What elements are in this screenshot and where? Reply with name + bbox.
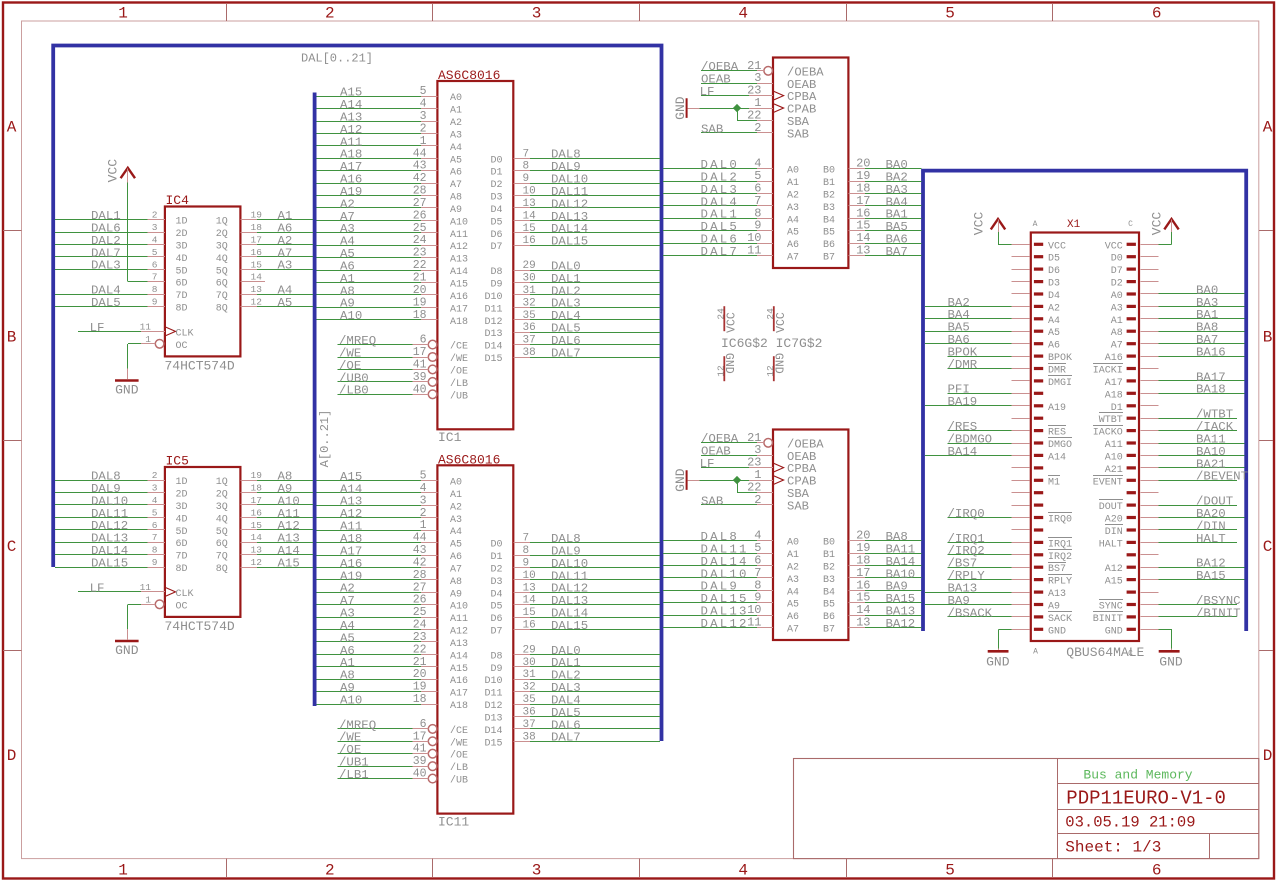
svg-text:B2: B2 (823, 190, 835, 201)
svg-text:VCC: VCC (105, 159, 120, 183)
svg-text:1: 1 (145, 594, 151, 605)
svg-text:DIN: DIN (1105, 527, 1123, 538)
svg-text:DMGO: DMGO (1048, 440, 1072, 451)
svg-text:5D: 5D (176, 266, 188, 277)
svg-text:4: 4 (152, 234, 158, 245)
svg-text:18: 18 (413, 309, 427, 322)
svg-text:D5: D5 (490, 217, 502, 228)
svg-text:5: 5 (420, 470, 427, 483)
svg-text:D6: D6 (490, 230, 502, 241)
svg-text:IC5: IC5 (166, 454, 189, 469)
svg-text:A2: A2 (450, 118, 462, 129)
svg-text:A17: A17 (1105, 378, 1123, 389)
svg-text:D0: D0 (490, 540, 502, 551)
svg-text:30: 30 (523, 657, 536, 669)
svg-text:GND: GND (1105, 626, 1123, 637)
svg-text:BA12: BA12 (886, 617, 916, 631)
svg-text:41: 41 (413, 358, 427, 371)
svg-text:14: 14 (523, 595, 537, 607)
svg-text:D: D (1263, 747, 1273, 765)
svg-text:A1: A1 (1111, 316, 1123, 327)
svg-text:12: 12 (251, 297, 263, 308)
svg-text:31: 31 (523, 669, 537, 681)
svg-text:42: 42 (413, 172, 427, 185)
svg-text:4Q: 4Q (216, 254, 228, 265)
svg-text:4: 4 (420, 98, 427, 111)
svg-text:D9: D9 (490, 280, 502, 291)
svg-text:2: 2 (420, 123, 427, 136)
svg-text:VCC: VCC (775, 312, 788, 333)
svg-text:A1: A1 (450, 106, 462, 117)
svg-text:2D: 2D (176, 229, 188, 240)
svg-text:8D: 8D (176, 564, 188, 575)
svg-text:D2: D2 (490, 180, 502, 191)
svg-text:D3: D3 (490, 193, 502, 204)
svg-text:22: 22 (413, 643, 427, 656)
svg-text:6Q: 6Q (216, 279, 228, 290)
svg-text:5D: 5D (176, 527, 188, 538)
svg-text:3: 3 (532, 861, 542, 879)
svg-text:14: 14 (251, 532, 263, 543)
svg-text:A0: A0 (450, 478, 462, 489)
svg-text:39: 39 (413, 755, 427, 768)
svg-text:5Q: 5Q (216, 527, 228, 538)
svg-text:HALT: HALT (1099, 539, 1123, 550)
svg-text:PDP11EURO-V1-0: PDP11EURO-V1-0 (1066, 788, 1226, 810)
svg-text:4: 4 (738, 4, 748, 22)
svg-text:1: 1 (145, 334, 151, 345)
svg-text:B3: B3 (823, 203, 835, 214)
svg-text:74HCT574D: 74HCT574D (165, 619, 235, 634)
svg-text:A12: A12 (1105, 564, 1123, 575)
svg-text:27: 27 (413, 197, 427, 210)
svg-text:32: 32 (523, 297, 536, 309)
svg-text:3D: 3D (176, 502, 188, 513)
svg-text:3: 3 (152, 222, 158, 233)
svg-text:12: 12 (251, 557, 263, 568)
svg-text:A3: A3 (1111, 303, 1123, 314)
svg-text:38: 38 (523, 347, 536, 359)
svg-text:A[0..21]: A[0..21] (318, 410, 332, 468)
svg-text:17: 17 (413, 730, 427, 743)
svg-text:28: 28 (413, 185, 427, 198)
svg-text:18: 18 (251, 483, 263, 494)
svg-text:2Q: 2Q (216, 229, 228, 240)
svg-text:D1: D1 (490, 168, 502, 179)
svg-text:15: 15 (251, 259, 263, 270)
svg-text:D11: D11 (484, 304, 502, 315)
svg-text:13: 13 (856, 244, 870, 258)
svg-text:AS6C8016: AS6C8016 (438, 68, 500, 83)
svg-text:D1: D1 (490, 552, 502, 563)
svg-text:/IRQ0: /IRQ0 (948, 507, 985, 521)
svg-text:BA18: BA18 (1196, 383, 1226, 397)
svg-text:A0: A0 (787, 538, 799, 549)
svg-text:/DMR: /DMR (948, 358, 978, 372)
svg-text:D13: D13 (484, 329, 502, 340)
svg-text:11: 11 (140, 582, 152, 593)
svg-text:18: 18 (413, 693, 427, 706)
svg-text:2: 2 (152, 210, 158, 221)
svg-text:3Q: 3Q (216, 502, 228, 513)
svg-text:A1: A1 (450, 490, 462, 501)
svg-text:35: 35 (523, 694, 536, 706)
svg-text:B5: B5 (823, 600, 835, 611)
svg-text:19: 19 (413, 296, 427, 309)
svg-text:B5: B5 (823, 228, 835, 239)
svg-text:A11: A11 (450, 614, 468, 625)
svg-text:16: 16 (523, 620, 536, 632)
svg-text:37: 37 (523, 335, 536, 347)
svg-text:40: 40 (413, 768, 427, 781)
svg-text:10: 10 (523, 186, 536, 198)
svg-text:1Q: 1Q (216, 217, 228, 228)
svg-text:EVENT: EVENT (1093, 477, 1123, 488)
svg-text:SAB: SAB (787, 128, 809, 142)
svg-text:9: 9 (152, 557, 158, 568)
svg-text:C: C (1128, 220, 1133, 229)
svg-text:B6: B6 (823, 240, 835, 251)
svg-text:D0: D0 (490, 155, 502, 166)
svg-text:44: 44 (413, 147, 427, 160)
svg-text:IC1: IC1 (438, 430, 462, 445)
svg-text:25: 25 (413, 606, 427, 619)
svg-text:44: 44 (413, 532, 427, 545)
svg-text:1: 1 (118, 861, 128, 879)
svg-text:6D: 6D (176, 539, 188, 550)
svg-text:A18: A18 (450, 317, 468, 328)
svg-text:6Q: 6Q (216, 539, 228, 550)
svg-text:35: 35 (523, 310, 536, 322)
svg-text:D5: D5 (490, 602, 502, 613)
svg-text:14: 14 (251, 272, 263, 283)
svg-text:SAB: SAB (787, 500, 809, 514)
svg-text:/CE: /CE (450, 341, 468, 353)
svg-text:RES: RES (1048, 428, 1066, 439)
svg-text:A7: A7 (450, 180, 462, 191)
svg-text:A0: A0 (450, 93, 462, 104)
svg-text:20: 20 (413, 668, 427, 681)
svg-text:5Q: 5Q (216, 266, 228, 277)
svg-text:13: 13 (523, 582, 536, 594)
svg-text:BA7: BA7 (886, 245, 908, 259)
svg-text:A5: A5 (787, 600, 799, 611)
svg-text:/LB0: /LB0 (339, 384, 369, 398)
svg-text:1: 1 (118, 4, 128, 22)
svg-text:A6: A6 (450, 552, 462, 563)
svg-text:29: 29 (523, 644, 536, 656)
svg-text:A16: A16 (450, 292, 468, 303)
svg-text:/OE: /OE (450, 365, 468, 377)
svg-text:CLK: CLK (176, 589, 194, 600)
svg-text:A4: A4 (450, 143, 462, 154)
svg-text:A13: A13 (450, 639, 468, 650)
svg-text:RPLY: RPLY (1048, 577, 1072, 588)
svg-text:A6: A6 (787, 240, 799, 251)
svg-text:IRQ2: IRQ2 (1048, 552, 1072, 563)
svg-text:A12: A12 (450, 627, 468, 638)
svg-text:A17: A17 (450, 304, 468, 315)
svg-text:23: 23 (413, 631, 427, 644)
svg-text:43: 43 (413, 160, 427, 173)
svg-text:A2: A2 (787, 562, 799, 573)
svg-text:19: 19 (413, 681, 427, 694)
svg-text:BPOK: BPOK (1048, 353, 1072, 364)
svg-text:B3: B3 (823, 575, 835, 586)
svg-text:B: B (1263, 328, 1273, 346)
svg-text:A10: A10 (340, 309, 362, 323)
svg-text:GND: GND (115, 643, 139, 658)
svg-text:A4: A4 (787, 215, 799, 226)
svg-text:D9: D9 (490, 664, 502, 675)
svg-text:11: 11 (747, 244, 761, 258)
svg-text:11: 11 (140, 321, 152, 332)
svg-text:DAL3: DAL3 (91, 259, 121, 273)
svg-text:A16: A16 (450, 676, 468, 687)
svg-text:1: 1 (420, 135, 427, 148)
svg-text:D3: D3 (490, 577, 502, 588)
svg-text:3D: 3D (176, 241, 188, 252)
svg-text:17: 17 (251, 234, 262, 245)
svg-text:A8: A8 (1111, 328, 1123, 339)
svg-text:40: 40 (413, 383, 427, 396)
svg-text:LF: LF (90, 581, 105, 595)
svg-text:DAL15: DAL15 (551, 235, 588, 249)
svg-text:D7: D7 (1111, 266, 1123, 277)
svg-text:1Q: 1Q (216, 477, 228, 488)
svg-text:A14: A14 (450, 267, 468, 278)
svg-text:/CE: /CE (450, 725, 468, 737)
svg-text:14: 14 (523, 210, 537, 222)
svg-text:D15: D15 (484, 354, 502, 365)
svg-text:D8: D8 (490, 651, 502, 662)
svg-text:A9: A9 (1048, 602, 1060, 613)
svg-text:A: A (1033, 648, 1038, 657)
svg-text:/WE: /WE (450, 737, 468, 749)
svg-text:DMGI: DMGI (1048, 378, 1072, 389)
svg-text:D: D (7, 747, 17, 765)
svg-text:OC: OC (176, 341, 188, 352)
svg-text:GND: GND (986, 655, 1010, 670)
svg-text:LF: LF (700, 85, 715, 99)
svg-text:SAB: SAB (701, 122, 723, 136)
svg-text:8: 8 (152, 545, 158, 556)
svg-text:Sheet: 1/3: Sheet: 1/3 (1065, 839, 1161, 857)
svg-text:A1: A1 (787, 550, 799, 561)
svg-text:B: B (7, 328, 17, 346)
svg-text:A3: A3 (787, 575, 799, 586)
svg-text:25: 25 (413, 222, 427, 235)
svg-text:1D: 1D (176, 477, 188, 488)
svg-text:DAL[0..21]: DAL[0..21] (301, 52, 373, 66)
svg-text:4D: 4D (176, 254, 188, 265)
svg-text:7D: 7D (176, 552, 188, 563)
svg-text:GND: GND (673, 96, 688, 120)
svg-text:30: 30 (523, 273, 536, 285)
svg-text:4Q: 4Q (216, 514, 228, 525)
svg-text:A8: A8 (450, 193, 462, 204)
svg-text:A2: A2 (787, 190, 799, 201)
svg-text:/BEVENT: /BEVENT (1196, 470, 1248, 484)
svg-text:21: 21 (413, 656, 427, 669)
svg-text:OC: OC (176, 601, 188, 612)
svg-text:2: 2 (325, 861, 335, 879)
svg-text:A14: A14 (450, 651, 468, 662)
svg-text:DAL15: DAL15 (551, 619, 588, 633)
svg-text:A15: A15 (450, 664, 468, 675)
svg-text:D10: D10 (484, 292, 502, 303)
svg-text:1D: 1D (176, 217, 188, 228)
svg-text:SAB: SAB (701, 494, 723, 508)
svg-text:/UB: /UB (450, 775, 468, 787)
svg-text:LF: LF (90, 321, 105, 335)
svg-text:/UB: /UB (450, 390, 468, 402)
svg-text:VCC: VCC (1048, 241, 1066, 252)
svg-text:3: 3 (420, 110, 427, 123)
svg-text:A5: A5 (450, 155, 462, 166)
svg-text:6D: 6D (176, 279, 188, 290)
svg-text:19: 19 (251, 210, 263, 221)
svg-text:A13: A13 (1048, 589, 1066, 600)
svg-text:B7: B7 (823, 253, 835, 264)
svg-text:BA19: BA19 (948, 395, 978, 409)
svg-text:A8: A8 (450, 577, 462, 588)
svg-text:4D: 4D (176, 514, 188, 525)
svg-text:2: 2 (152, 470, 158, 481)
svg-text:D10: D10 (484, 676, 502, 687)
svg-text:A0: A0 (1111, 291, 1123, 302)
svg-text:WTBT: WTBT (1099, 415, 1123, 426)
svg-text:3: 3 (420, 494, 427, 507)
svg-text:DAL12: DAL12 (701, 617, 749, 631)
svg-text:7: 7 (152, 272, 158, 283)
svg-text:D6: D6 (1048, 266, 1060, 277)
svg-text:26: 26 (413, 594, 427, 607)
svg-text:/OE: /OE (450, 750, 468, 762)
svg-text:GND: GND (772, 353, 785, 374)
svg-text:21: 21 (413, 272, 427, 285)
svg-text:16: 16 (251, 507, 263, 518)
svg-text:D14: D14 (484, 342, 502, 353)
svg-text:3Q: 3Q (216, 241, 228, 252)
svg-text:B2: B2 (823, 562, 835, 573)
svg-text:Bus and Memory: Bus and Memory (1083, 768, 1192, 783)
svg-text:A15: A15 (278, 556, 300, 570)
svg-text:SYNC: SYNC (1099, 602, 1123, 613)
svg-text:/LB1: /LB1 (339, 768, 369, 782)
svg-text:A6: A6 (1048, 341, 1060, 352)
svg-text:CLK: CLK (176, 328, 194, 339)
svg-text:A4: A4 (450, 527, 462, 538)
svg-text:A10: A10 (340, 694, 362, 708)
svg-text:D14: D14 (484, 726, 502, 737)
svg-text:A19: A19 (1048, 403, 1066, 414)
svg-text:AS6C8016: AS6C8016 (438, 452, 500, 467)
svg-text:A17: A17 (450, 689, 468, 700)
svg-text:D2: D2 (1111, 279, 1123, 290)
svg-text:A10: A10 (450, 602, 468, 613)
svg-text:A: A (1263, 119, 1273, 137)
svg-text:GND: GND (722, 353, 735, 374)
svg-text:VCC: VCC (1150, 212, 1165, 236)
svg-text:26: 26 (413, 209, 427, 222)
svg-text:SACK: SACK (1048, 614, 1072, 625)
svg-text:5: 5 (152, 247, 158, 258)
svg-text:B6: B6 (823, 612, 835, 623)
svg-text:IC11: IC11 (438, 814, 469, 829)
svg-text:/WE: /WE (450, 353, 468, 365)
svg-text:GND: GND (673, 468, 688, 492)
svg-text:38: 38 (523, 731, 536, 743)
svg-text:BS7: BS7 (1048, 564, 1066, 575)
svg-text:8Q: 8Q (216, 304, 228, 315)
svg-text:A9: A9 (450, 589, 462, 600)
svg-text:6: 6 (152, 520, 158, 531)
svg-text:A9: A9 (450, 205, 462, 216)
svg-text:20: 20 (413, 284, 427, 297)
svg-text:A4: A4 (1048, 316, 1060, 327)
svg-text:7: 7 (152, 532, 158, 543)
svg-text:D5: D5 (1048, 254, 1060, 265)
svg-text:17: 17 (413, 346, 427, 359)
svg-text:DAL15: DAL15 (91, 556, 128, 570)
svg-text:A1: A1 (787, 178, 799, 189)
svg-text:X1: X1 (1067, 219, 1081, 231)
svg-text:37: 37 (523, 719, 536, 731)
svg-text:A18: A18 (450, 701, 468, 712)
svg-text:2D: 2D (176, 490, 188, 501)
svg-text:DOUT: DOUT (1099, 502, 1123, 513)
svg-text:22: 22 (413, 259, 427, 272)
svg-text:A10: A10 (450, 217, 468, 228)
svg-text:B0: B0 (823, 166, 835, 177)
svg-text:A12: A12 (450, 242, 468, 253)
svg-text:18: 18 (251, 222, 263, 233)
svg-text:74HCT574D: 74HCT574D (165, 359, 235, 374)
svg-text:/BINIT: /BINIT (1196, 606, 1241, 620)
svg-text:32: 32 (523, 682, 536, 694)
svg-text:2: 2 (420, 507, 427, 520)
svg-text:IC4: IC4 (166, 193, 190, 208)
svg-text:DMR: DMR (1048, 366, 1066, 377)
svg-text:D7: D7 (490, 627, 502, 638)
svg-text:8Q: 8Q (216, 564, 228, 575)
svg-text:A13: A13 (450, 255, 468, 266)
svg-text:VCC: VCC (726, 312, 739, 333)
svg-text:15: 15 (523, 223, 536, 235)
svg-text:D12: D12 (484, 317, 502, 328)
svg-text:7Q: 7Q (216, 291, 228, 302)
svg-text:VCC: VCC (971, 212, 986, 236)
svg-text:10: 10 (523, 570, 536, 582)
svg-text:6: 6 (1152, 861, 1162, 879)
svg-text:GND: GND (1159, 655, 1183, 670)
svg-text:24: 24 (413, 234, 427, 247)
svg-text:BA14: BA14 (948, 445, 978, 459)
svg-text:1: 1 (420, 519, 427, 532)
svg-text:B0: B0 (823, 538, 835, 549)
svg-text:D13: D13 (484, 714, 502, 725)
svg-text:3: 3 (532, 4, 542, 22)
svg-text:28: 28 (413, 569, 427, 582)
svg-text:/BSACK: /BSACK (948, 606, 993, 620)
svg-text:D7: D7 (490, 242, 502, 253)
svg-text:A: A (7, 119, 17, 137)
svg-text:8: 8 (523, 161, 530, 173)
svg-text:A7: A7 (450, 564, 462, 575)
svg-text:36: 36 (523, 322, 536, 334)
svg-text:C: C (7, 538, 17, 556)
